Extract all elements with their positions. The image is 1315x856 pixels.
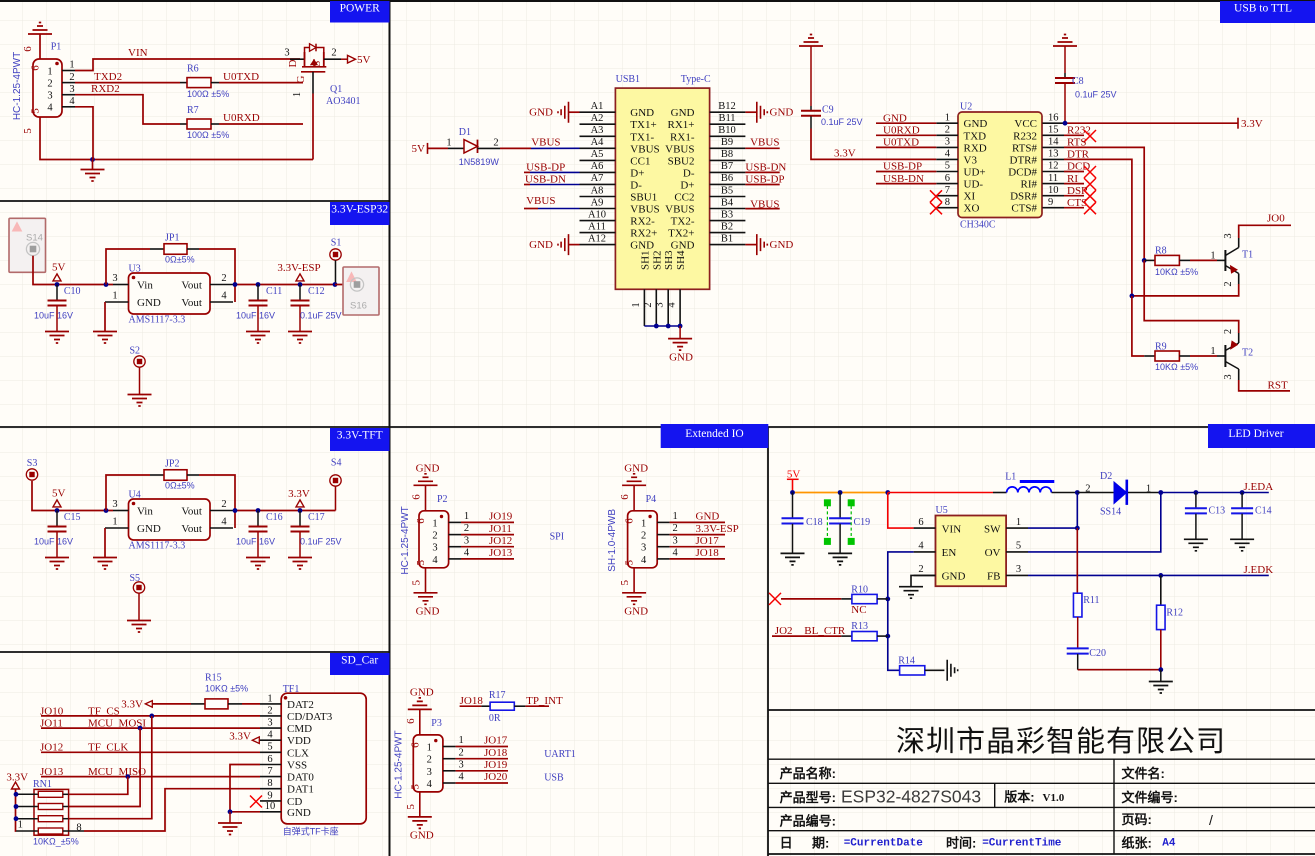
svg-text:A11: A11 <box>588 221 606 232</box>
svg-text:CC2: CC2 <box>674 192 694 204</box>
svg-text:6: 6 <box>409 742 421 748</box>
svg-text:1: 1 <box>1210 251 1215 262</box>
capacitor C14 <box>1241 493 1243 509</box>
ground <box>633 568 635 593</box>
svg-text:TX1-: TX1- <box>630 131 654 143</box>
svg-text:V1.0: V1.0 <box>1043 792 1065 804</box>
capacitor C15 10uF <box>56 511 58 527</box>
svg-text:HC-1.25-4PWT: HC-1.25-4PWT <box>400 506 411 574</box>
svg-text:1: 1 <box>1210 346 1215 357</box>
svg-text:B5: B5 <box>721 185 733 196</box>
wire VBUS B9 <box>745 147 779 149</box>
svg-text:3.3V-ESP: 3.3V-ESP <box>277 262 320 274</box>
svg-text:1: 1 <box>446 138 451 149</box>
svg-text:3: 3 <box>1016 564 1021 575</box>
svg-text:B8: B8 <box>721 149 733 160</box>
svg-text:3: 3 <box>458 759 463 770</box>
svg-text:VBUS: VBUS <box>750 137 779 149</box>
pin2 pin4 stubs <box>210 284 233 286</box>
ground <box>668 339 692 351</box>
svg-text:1: 1 <box>47 66 52 77</box>
svg-text:DCD: DCD <box>1067 161 1090 173</box>
capacitor C13 <box>1195 493 1197 509</box>
wire 5V rail orange <box>793 492 888 494</box>
svg-text:3.3V: 3.3V <box>6 772 28 784</box>
svg-text:DCD#: DCD# <box>1008 167 1037 179</box>
wire MCU_MISO <box>41 776 260 778</box>
power port 3.3V-ESP <box>298 282 303 287</box>
svg-text:VSS: VSS <box>287 760 307 772</box>
svg-text:GND: GND <box>964 118 988 130</box>
wire 3.3V output rail <box>233 284 335 286</box>
section title bar 3.3V-TFT <box>330 428 390 451</box>
net label RI with cross <box>1064 183 1084 185</box>
svg-text:RN1: RN1 <box>33 779 52 790</box>
svg-text:产品名称:: 产品名称: <box>780 766 836 781</box>
ground <box>828 553 852 565</box>
svg-text:GND: GND <box>410 687 434 699</box>
wire 3.3V output rail <box>233 510 335 512</box>
svg-text:TX2+: TX2+ <box>668 228 694 240</box>
svg-text:A12: A12 <box>588 233 606 244</box>
svg-text:BL_CTR: BL_CTR <box>804 625 846 637</box>
svg-text:P3: P3 <box>431 718 442 729</box>
net label DCD with cross <box>1064 171 1084 173</box>
svg-text:G: G <box>295 75 307 83</box>
resistor R8 10K <box>1142 258 1147 263</box>
svg-text:6: 6 <box>619 494 631 500</box>
svg-text:0.1uF 25V: 0.1uF 25V <box>300 536 342 546</box>
svg-text:GND: GND <box>696 511 720 523</box>
svg-text:DTR#: DTR# <box>1010 154 1038 166</box>
ground <box>419 792 421 817</box>
svg-text:TX2-: TX2- <box>671 216 695 228</box>
svg-text:R13: R13 <box>851 621 868 632</box>
svg-text:13: 13 <box>1048 149 1059 160</box>
svg-text:DAT0: DAT0 <box>287 772 314 784</box>
wire U0RXD <box>211 123 219 125</box>
svg-text:TXD: TXD <box>964 130 987 142</box>
IC U2 CH340C <box>958 112 1042 218</box>
svg-text:USB-DN: USB-DN <box>525 173 566 185</box>
wire P1 pin5 to gnd rail <box>40 117 313 160</box>
wire JO0 <box>1239 225 1291 238</box>
capacitor C8 0.1uF <box>1064 46 1066 73</box>
svg-text:B12: B12 <box>718 101 736 112</box>
svg-text:B3: B3 <box>721 209 733 220</box>
svg-text:GND: GND <box>630 240 654 252</box>
svg-text:2: 2 <box>432 531 437 542</box>
svg-text:R17: R17 <box>489 690 506 701</box>
svg-text:TXD2: TXD2 <box>94 71 122 83</box>
svg-text:C20: C20 <box>1089 648 1106 659</box>
svg-text:1: 1 <box>427 743 432 754</box>
svg-text:GND: GND <box>137 297 161 309</box>
svg-text:5V: 5V <box>357 54 371 66</box>
svg-text:C12: C12 <box>308 286 325 297</box>
svg-text:SD_Car: SD_Car <box>341 655 378 667</box>
svg-text:2: 2 <box>221 273 226 284</box>
svg-text:1: 1 <box>631 302 642 307</box>
wire USB-DP <box>876 171 936 173</box>
svg-text:AMS1117-3.3: AMS1117-3.3 <box>129 314 186 325</box>
svg-text:10KΩ_±5%: 10KΩ_±5% <box>33 837 79 847</box>
no-ERC cross on TF1 pin9 <box>250 796 262 808</box>
ground <box>127 621 151 633</box>
ground <box>45 332 69 344</box>
svg-text:2: 2 <box>331 48 336 59</box>
svg-text:5: 5 <box>411 580 423 586</box>
svg-text:D2: D2 <box>1100 471 1112 482</box>
svg-text:S3: S3 <box>27 458 38 469</box>
resistor R11 <box>1076 528 1078 593</box>
wire U0RXD <box>876 134 936 136</box>
svg-text:5: 5 <box>405 804 417 810</box>
svg-text:5: 5 <box>22 128 34 134</box>
svg-text:5: 5 <box>1016 541 1021 552</box>
svg-text:2: 2 <box>643 302 654 307</box>
svg-text:V3: V3 <box>964 154 978 166</box>
svg-text:16: 16 <box>1048 112 1059 123</box>
svg-text:1N5819W: 1N5819W <box>459 157 500 167</box>
svg-text:GND: GND <box>529 107 553 119</box>
ground <box>781 553 805 565</box>
transistor T1 npn <box>1224 250 1226 271</box>
svg-text:USB-DP: USB-DP <box>883 161 922 173</box>
svg-text:深圳市晶彩智能有限公司: 深圳市晶彩智能有限公司 <box>896 725 1226 758</box>
svg-text:4: 4 <box>464 548 470 559</box>
resistor R7 100ohm <box>187 119 211 129</box>
svg-text:2: 2 <box>672 523 677 534</box>
svg-text:A7: A7 <box>591 173 604 184</box>
svg-text:10KΩ ±5%: 10KΩ ±5% <box>1155 362 1198 372</box>
svg-text:SH4: SH4 <box>675 250 687 270</box>
svg-text:C9: C9 <box>822 105 834 116</box>
net label R232 with cross <box>1064 134 1084 136</box>
svg-text:5: 5 <box>30 108 42 114</box>
svg-text:GND: GND <box>416 605 440 617</box>
svg-text:4: 4 <box>267 730 273 741</box>
svg-text:Vout: Vout <box>181 523 202 535</box>
svg-text:4: 4 <box>667 302 678 308</box>
section title bar POWER <box>330 1 390 23</box>
wire VBUS A9 <box>524 208 538 210</box>
svg-text:100Ω ±5%: 100Ω ±5% <box>187 130 229 140</box>
resistor R6 100ohm <box>187 78 211 88</box>
svg-text:JO17: JO17 <box>696 535 720 547</box>
svg-text:6: 6 <box>624 518 636 524</box>
capacitor C11 10uF <box>256 282 261 287</box>
svg-text:0Ω±5%: 0Ω±5% <box>165 481 195 491</box>
wire P1 pin6 to ground <box>39 34 41 59</box>
transistor T2 npn <box>1224 345 1226 367</box>
svg-text:2: 2 <box>267 705 272 716</box>
svg-text:3: 3 <box>655 302 666 307</box>
svg-text:A9: A9 <box>591 197 604 208</box>
svg-text:3.3V-TFT: 3.3V-TFT <box>337 430 383 442</box>
svg-text:JO19: JO19 <box>484 759 508 771</box>
svg-text:12: 12 <box>1048 161 1059 172</box>
svg-text:USB1: USB1 <box>616 74 640 85</box>
svg-text:C19: C19 <box>854 517 871 528</box>
svg-text:TX1+: TX1+ <box>630 119 656 131</box>
svg-text:ESP32-4827S043: ESP32-4827S043 <box>841 787 981 807</box>
svg-text:R232: R232 <box>1013 130 1037 142</box>
svg-text:1: 1 <box>464 511 469 522</box>
wire J.EDA <box>1161 492 1269 494</box>
ground <box>288 332 312 344</box>
svg-text:RXD2: RXD2 <box>91 83 120 95</box>
svg-text:U0TXD: U0TXD <box>223 71 259 83</box>
svg-text:R8: R8 <box>1155 246 1167 257</box>
svg-text:JO13: JO13 <box>489 547 513 559</box>
svg-text:S14: S14 <box>26 233 43 244</box>
svg-text:1: 1 <box>267 693 272 704</box>
svg-text:1: 1 <box>112 291 117 302</box>
svg-text:DAT1: DAT1 <box>287 784 314 796</box>
svg-text:8: 8 <box>267 778 272 789</box>
svg-text:VBUS: VBUS <box>531 137 560 149</box>
svg-text:GND: GND <box>883 112 907 124</box>
svg-text:时间:: 时间: <box>946 835 976 850</box>
svg-text:Q1: Q1 <box>330 84 342 95</box>
svg-text:C18: C18 <box>806 517 823 528</box>
svg-text:U0RXD: U0RXD <box>883 125 920 137</box>
svg-text:日: 日 <box>780 835 793 850</box>
title block grid <box>768 709 1315 711</box>
svg-text:1: 1 <box>458 735 463 746</box>
svg-text:P2: P2 <box>437 494 448 505</box>
connector USB1 Type-C <box>615 88 709 289</box>
svg-text:S4: S4 <box>331 457 342 468</box>
svg-text:6: 6 <box>267 754 272 765</box>
wire to S16 pad <box>335 284 352 286</box>
svg-text:C11: C11 <box>266 286 282 297</box>
svg-text:VBUS: VBUS <box>665 204 694 216</box>
svg-text:3.3V-ESP32: 3.3V-ESP32 <box>331 204 388 216</box>
svg-text:8: 8 <box>76 823 81 834</box>
svg-text:5V: 5V <box>52 488 66 500</box>
svg-text:5: 5 <box>624 560 636 566</box>
ground <box>246 558 270 570</box>
svg-text:2: 2 <box>1223 281 1234 286</box>
svg-text:EN: EN <box>942 547 957 559</box>
svg-text:HC-1.25-4PWT: HC-1.25-4PWT <box>12 52 23 120</box>
wire U0TXD <box>211 82 219 84</box>
wire DTR to T1 emitter <box>1132 284 1239 296</box>
svg-text:3: 3 <box>1223 374 1234 379</box>
svg-text:10uF 16V: 10uF 16V <box>34 536 73 546</box>
wire OV sense <box>1028 493 1161 552</box>
svg-text:D1: D1 <box>459 127 471 138</box>
svg-text:6: 6 <box>405 718 417 724</box>
svg-text:RX2+: RX2+ <box>630 228 657 240</box>
svg-text:NC: NC <box>851 604 866 616</box>
no-ERC cross XO <box>930 202 942 214</box>
svg-text:CMD: CMD <box>287 723 312 735</box>
svg-text:B9: B9 <box>721 137 733 148</box>
power port GND at B12 <box>745 111 756 113</box>
svg-text:CD/DAT3: CD/DAT3 <box>287 711 333 723</box>
svg-text:S2: S2 <box>130 345 141 356</box>
svg-text:B11: B11 <box>718 113 735 124</box>
svg-text:U3: U3 <box>129 263 141 274</box>
wire U0TXD <box>876 146 936 148</box>
svg-text:B2: B2 <box>721 221 733 232</box>
svg-text:3: 3 <box>945 137 950 148</box>
TF card socket TF1 <box>281 693 366 824</box>
svg-text:B10: B10 <box>718 125 736 136</box>
svg-text:A4: A4 <box>1162 838 1176 850</box>
resistor R12 <box>1160 575 1162 605</box>
ground <box>1184 539 1208 551</box>
svg-text:A6: A6 <box>591 161 604 172</box>
power port 3.3V <box>1237 118 1239 129</box>
svg-text:GND: GND <box>669 352 693 364</box>
wire rail to L1 red <box>888 492 993 494</box>
svg-text:5: 5 <box>409 784 421 790</box>
svg-text:JO18: JO18 <box>484 747 508 759</box>
svg-text:5V: 5V <box>412 143 426 155</box>
svg-text:RX1+: RX1+ <box>668 119 695 131</box>
svg-text:USB: USB <box>544 773 564 784</box>
wire USB-DN <box>524 184 530 186</box>
svg-text:4: 4 <box>47 103 53 114</box>
svg-text:JO11: JO11 <box>489 523 512 535</box>
capacitor C16 10uF <box>256 508 261 513</box>
svg-text:5: 5 <box>945 161 950 172</box>
ground <box>93 332 117 344</box>
svg-text:期:: 期: <box>812 835 829 850</box>
svg-text:CLX: CLX <box>287 747 309 759</box>
svg-text:U5: U5 <box>936 505 948 516</box>
wire RTS <box>1064 147 1144 260</box>
wire RN1a to MCU_MISO <box>63 793 69 795</box>
svg-text:UD+: UD+ <box>964 167 986 179</box>
svg-text:11: 11 <box>1048 173 1058 184</box>
svg-text:3: 3 <box>69 84 74 95</box>
svg-text:USB-DP: USB-DP <box>526 161 565 173</box>
svg-text:A4: A4 <box>591 137 605 148</box>
svg-text:C10: C10 <box>64 286 81 297</box>
power port GND at A12 <box>558 234 569 255</box>
svg-text:100Ω ±5%: 100Ω ±5% <box>187 89 229 99</box>
ground <box>45 558 69 570</box>
ground <box>229 812 231 823</box>
regulator section rail wire <box>32 481 113 511</box>
svg-text:R9: R9 <box>1155 342 1167 353</box>
wire USB-DP B6 <box>745 184 779 186</box>
svg-text:SBU1: SBU1 <box>630 192 657 204</box>
svg-text:3.3V: 3.3V <box>1241 118 1263 130</box>
wire GND net to U2 <box>876 122 936 124</box>
svg-text:JO0: JO0 <box>1267 212 1285 224</box>
svg-text:3.3V: 3.3V <box>229 731 251 743</box>
capacitor C19 selected <box>839 493 841 519</box>
svg-text:7: 7 <box>945 185 950 196</box>
ground above C8 <box>1053 35 1077 47</box>
svg-text:10: 10 <box>265 801 276 812</box>
section divider lines <box>0 0 1315 2</box>
wire VBUS B4 <box>745 208 779 210</box>
svg-text:B4: B4 <box>721 197 734 208</box>
svg-text:1: 1 <box>1146 483 1151 494</box>
svg-text:A5: A5 <box>591 149 604 160</box>
wire 3.3V to U2 V3 <box>811 129 936 160</box>
svg-text:R12: R12 <box>1166 607 1183 618</box>
svg-text:GND: GND <box>416 463 440 475</box>
svg-text:4: 4 <box>69 96 75 107</box>
svg-text:文件编号:: 文件编号: <box>1122 790 1178 805</box>
svg-text:B6: B6 <box>721 173 733 184</box>
svg-text:LED Driver: LED Driver <box>1228 428 1283 440</box>
svg-text:2: 2 <box>493 138 498 149</box>
svg-text:3: 3 <box>641 543 646 554</box>
svg-text:J.EDK: J.EDK <box>1244 564 1274 576</box>
svg-text:SBU2: SBU2 <box>668 155 695 167</box>
svg-text:TP_INT: TP_INT <box>526 695 563 707</box>
svg-text:自弹式TF卡座: 自弹式TF卡座 <box>283 826 339 837</box>
svg-text:RTS: RTS <box>1067 137 1087 149</box>
resistor R13 <box>772 635 841 637</box>
capacitor C20 <box>1077 617 1079 648</box>
svg-text:GND: GND <box>770 107 794 119</box>
svg-text:2: 2 <box>69 72 74 83</box>
svg-text:VBUS: VBUS <box>630 204 659 216</box>
ground <box>1230 539 1254 551</box>
svg-text:GND: GND <box>671 240 695 252</box>
power port 3.3V <box>298 508 303 513</box>
svg-text:1: 1 <box>945 112 950 123</box>
svg-text:6: 6 <box>22 46 34 52</box>
svg-text:6: 6 <box>945 173 950 184</box>
wire DTR to R9 <box>1132 296 1144 356</box>
no-ERC cross XI <box>930 190 942 202</box>
section title bar USB to TTL <box>1220 1 1315 23</box>
svg-text:0.1uF 25V: 0.1uF 25V <box>821 117 863 127</box>
svg-text:2: 2 <box>464 523 469 534</box>
svg-text:0.1uF 25V: 0.1uF 25V <box>1075 90 1117 100</box>
svg-text:3.3V: 3.3V <box>288 488 310 500</box>
svg-text:L1: L1 <box>1005 471 1016 482</box>
svg-text:纸张:: 纸张: <box>1122 835 1152 850</box>
resistor R15 10K <box>152 703 191 705</box>
svg-text:JO17: JO17 <box>484 735 508 747</box>
svg-text:DSR#: DSR# <box>1010 191 1037 203</box>
svg-text:DTR: DTR <box>1067 149 1090 161</box>
wire to VIN red <box>888 493 914 529</box>
wire TF_CS <box>41 715 260 717</box>
svg-text:3: 3 <box>432 543 437 554</box>
svg-text:S16: S16 <box>350 301 367 312</box>
svg-text:5: 5 <box>415 560 427 566</box>
svg-text:OV: OV <box>985 547 1001 559</box>
ground <box>425 568 427 593</box>
wire U5 GND to ground <box>911 575 936 586</box>
svg-text:1: 1 <box>112 517 117 528</box>
capacitor C18 <box>792 493 794 519</box>
svg-text:B1: B1 <box>721 233 733 244</box>
svg-text:U0TXD: U0TXD <box>883 137 919 149</box>
svg-text:P1: P1 <box>51 42 62 53</box>
svg-text:RST: RST <box>1268 379 1288 391</box>
wire RXD2 <box>75 95 180 124</box>
svg-text:D+: D+ <box>680 179 694 191</box>
svg-text:U4: U4 <box>129 489 141 500</box>
svg-text:1: 1 <box>69 60 74 71</box>
power port 5V <box>55 282 60 287</box>
regulator U4 AMS1117-3.3 <box>129 499 211 540</box>
